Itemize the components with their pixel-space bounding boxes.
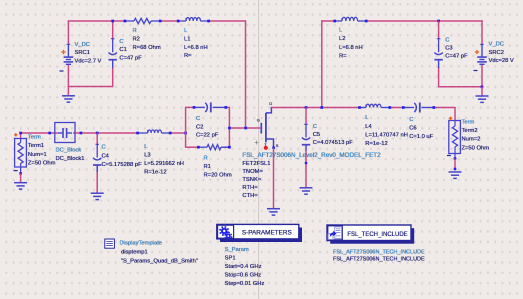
svg-text:Term2: Term2 <box>462 128 478 134</box>
display template disptemp1 <box>105 239 198 265</box>
wire RC block right bar <box>223 107 230 148</box>
svg-text:C: C <box>445 37 449 43</box>
svg-text:Step=0.01 GHz: Step=0.01 GHz <box>225 281 265 287</box>
inductor L3 <box>136 130 184 176</box>
svg-text:C=47 pF: C=47 pF <box>119 56 142 62</box>
wire top-left rail <box>68 20 245 22</box>
svg-text:S: S <box>276 143 279 148</box>
wire drain rail <box>271 107 455 109</box>
svg-text:FSL_TECH_INCLUDE: FSL_TECH_INCLUDE <box>347 232 407 238</box>
wire RC output to gate <box>229 127 260 129</box>
simulation block S-PARAMETERS <box>217 224 302 242</box>
inductor L4 <box>358 104 408 147</box>
capacitor C3 <box>434 37 468 68</box>
node C1 top <box>111 20 114 23</box>
svg-text:C: C <box>313 124 317 130</box>
include block FSL_TECH_INCLUDE <box>327 225 414 244</box>
ground under SRC2 <box>476 87 489 103</box>
svg-text:TNOM=: TNOM= <box>242 169 263 175</box>
svg-text:S_Param: S_Param <box>225 247 249 253</box>
svg-text:G: G <box>257 118 260 123</box>
svg-text:R: R <box>204 155 208 161</box>
inductor L2 <box>333 17 367 59</box>
node SRC2 bottom <box>481 85 484 88</box>
annotation FSL tech include lines <box>333 249 425 262</box>
svg-text:disptemp1: disptemp1 <box>121 250 148 256</box>
wire C4 top lead <box>96 133 98 145</box>
capacitor C6 <box>402 103 435 141</box>
ground under SRC1 <box>62 87 75 103</box>
svg-text:C: C <box>409 117 413 123</box>
svg-text:Stop=0.6 GHz: Stop=0.6 GHz <box>225 273 262 279</box>
svg-text:Term1: Term1 <box>28 143 44 149</box>
svg-text:"S_Params_Quad_dB_Smith": "S_Params_Quad_dB_Smith" <box>121 259 198 265</box>
wire C3 top lead <box>438 21 440 39</box>
svg-text:L2: L2 <box>339 36 345 42</box>
capacitor C1 <box>109 39 143 69</box>
svg-text:Vdc=2.7 V: Vdc=2.7 V <box>75 59 102 65</box>
svg-text:R=1e-12: R=1e-12 <box>365 141 387 147</box>
svg-text:C1: C1 <box>119 47 126 53</box>
resistor R2 <box>124 18 162 50</box>
node RC block input <box>184 132 187 135</box>
svg-text:L=6.8 nH: L=6.8 nH <box>184 45 208 51</box>
svg-text:C3: C3 <box>445 46 452 52</box>
wire C3 bottom to SRC2 <box>439 67 483 88</box>
svg-text:C=5.175288 pF: C=5.175288 pF <box>102 162 143 168</box>
svg-text:S-PARAMETERS: S-PARAMETERS <box>242 229 292 236</box>
wire drop to Term2 <box>454 108 456 121</box>
capacitor C4 <box>93 144 142 172</box>
dc block DC_Block1 <box>48 123 84 163</box>
wire top-right rail <box>321 20 483 22</box>
svg-text:C4: C4 <box>102 153 110 159</box>
wire C5 bottom lead <box>305 151 307 188</box>
svg-text:DC_Block: DC_Block <box>56 148 82 154</box>
svg-text:SP1: SP1 <box>225 255 236 261</box>
svg-text:Z=50 Ohm: Z=50 Ohm <box>462 145 490 151</box>
resistor R1 <box>197 145 232 179</box>
svg-text:R1: R1 <box>204 164 211 170</box>
annotation S_Param SP1 <box>225 247 265 287</box>
svg-text:C=4.074513 pF: C=4.074513 pF <box>313 140 354 146</box>
page partition line <box>258 0 260 299</box>
svg-text:C=1.0 uF: C=1.0 uF <box>409 134 433 140</box>
svg-text:DC_Block1: DC_Block1 <box>56 156 85 162</box>
svg-text:L=5.291662 nH: L=5.291662 nH <box>144 161 184 167</box>
svg-text:C=22 pF: C=22 pF <box>196 133 219 139</box>
node RC output <box>228 127 231 130</box>
svg-text:V_DC: V_DC <box>489 42 504 48</box>
svg-text:V_DC: V_DC <box>75 42 90 48</box>
svg-text:RTH=: RTH= <box>242 185 258 191</box>
svg-text:FET2FSL1: FET2FSL1 <box>242 161 270 167</box>
svg-text:FSL_AFT27S006N_Level2_Rev0_MOD: FSL_AFT27S006N_Level2_Rev0_MODEL_FET2 <box>242 152 381 159</box>
node gate junction <box>244 127 247 130</box>
port Term1 <box>14 132 56 175</box>
wire riser from L1 down to gate node <box>245 20 247 128</box>
svg-text:C: C <box>119 39 123 45</box>
svg-text:C5: C5 <box>313 132 320 138</box>
svg-text:L: L <box>144 144 148 150</box>
wire RC block left bar <box>186 107 199 148</box>
transistor FET2FSL1 <box>242 101 381 199</box>
wire C5 top lead <box>305 108 307 125</box>
capacitor C5 <box>302 124 353 151</box>
svg-text:Vdc=28 V: Vdc=28 V <box>489 58 514 64</box>
wire C1 bottom lead <box>112 67 114 87</box>
svg-text:TSNK=: TSNK= <box>242 177 261 183</box>
port Term2 <box>447 117 489 160</box>
svg-text:Z=50 Ohm: Z=50 Ohm <box>28 160 56 166</box>
svg-text:L: L <box>184 28 188 34</box>
node C3 top <box>437 20 440 23</box>
node C4 tap <box>96 132 99 135</box>
svg-text:R=20 Ohm: R=20 Ohm <box>204 173 232 179</box>
ground under C4 <box>91 193 104 199</box>
ground under Term1 <box>14 173 27 189</box>
svg-text:C2: C2 <box>196 124 203 130</box>
svg-text:L4: L4 <box>365 124 372 130</box>
svg-text:C: C <box>102 145 106 151</box>
svg-text:Start=0.4 GHz: Start=0.4 GHz <box>225 264 262 270</box>
wire C1 top lead <box>112 21 114 39</box>
svg-text:Num=2: Num=2 <box>462 137 481 143</box>
svg-text:R=: R= <box>339 53 347 59</box>
ground under FET source <box>267 209 280 215</box>
node riser tap <box>320 106 323 109</box>
wire Term2 to ground <box>454 159 457 171</box>
svg-text:FSL_AFT27S006N_TECH_INCLUDE: FSL_AFT27S006N_TECH_INCLUDE <box>333 249 425 255</box>
svg-text:Num=1: Num=1 <box>28 152 47 158</box>
ground under C5 <box>300 188 313 194</box>
svg-text:R=1e-12: R=1e-12 <box>144 170 166 176</box>
svg-text:D: D <box>269 101 272 106</box>
svg-text:Term: Term <box>28 135 41 141</box>
svg-text:L1: L1 <box>184 36 190 42</box>
svg-text:R=68 Ohm: R=68 Ohm <box>133 45 161 51</box>
inductor L1 <box>177 18 210 60</box>
wire SRC2 drop <box>481 20 483 45</box>
svg-text:C6: C6 <box>409 126 416 132</box>
wire riser drain to top rail <box>321 20 323 107</box>
dc source SRC2 <box>474 42 514 71</box>
svg-text:Term: Term <box>462 120 475 126</box>
svg-text:C: C <box>196 116 200 122</box>
svg-text:C=47 pF: C=47 pF <box>445 54 468 60</box>
dc source SRC1 <box>60 42 102 71</box>
svg-text:FSL_AFT27S006N_TECH_INCLUDE: FSL_AFT27S006N_TECH_INCLUDE <box>333 257 425 263</box>
svg-text:CTH=: CTH= <box>242 193 258 199</box>
svg-text:R2: R2 <box>133 36 140 42</box>
ground under Term2 <box>449 172 462 178</box>
wire middle rail <box>21 132 187 134</box>
svg-text:L3: L3 <box>144 153 150 159</box>
svg-text:L=6.8 nH: L=6.8 nH <box>339 45 363 51</box>
svg-text:DisplayTemplate: DisplayTemplate <box>120 241 163 247</box>
wire FET source to ground <box>273 148 275 209</box>
svg-text:L=11.470747 nH: L=11.470747 nH <box>365 132 408 138</box>
capacitor C2 <box>193 102 228 138</box>
svg-text:R=: R= <box>184 53 192 59</box>
wire C4 bottom lead <box>96 166 98 193</box>
wire SRC1 bottom <box>68 65 113 88</box>
wire SRC2 bottom lead <box>481 65 483 88</box>
svg-text:R: R <box>133 28 137 34</box>
svg-text:L: L <box>365 115 369 121</box>
svg-text:SRC1: SRC1 <box>75 50 90 56</box>
node C5 tap <box>305 106 308 109</box>
svg-text:L: L <box>339 28 343 34</box>
svg-text:SRC2: SRC2 <box>489 50 504 56</box>
wire SRC1 top lead <box>67 20 69 45</box>
